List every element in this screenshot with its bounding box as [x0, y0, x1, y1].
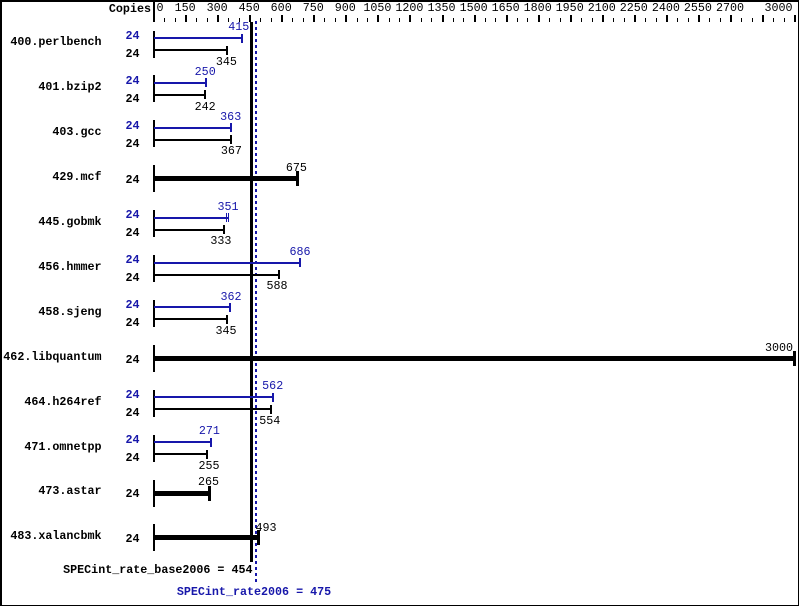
group 464.h264ref	[24, 396, 101, 408]
separator line	[153, 0, 155, 22]
solid base mean line 454	[250, 22, 253, 562]
group 401.bzip2	[38, 81, 101, 93]
x axis labels	[157, 2, 164, 14]
dotted peak mean line 475	[255, 21, 257, 584]
Copies header	[109, 3, 151, 15]
SPECint_rate2006 label	[177, 586, 331, 598]
border frame	[0, 0, 799, 2]
group 429.mcf	[52, 171, 101, 183]
group 445.gobmk	[38, 216, 101, 228]
group 483.xalancbmk	[10, 530, 101, 542]
SPECint_rate_base2006 label	[63, 564, 252, 576]
group 473.astar	[38, 485, 101, 497]
group 458.sjeng	[38, 306, 101, 318]
group 471.omnetpp	[24, 441, 101, 453]
group 400.perlbench	[10, 36, 101, 48]
group 462.libquantum	[3, 351, 101, 363]
x axis ticks	[153, 15, 155, 22]
group 403.gcc	[52, 126, 101, 138]
group 456.hmmer	[38, 261, 101, 273]
